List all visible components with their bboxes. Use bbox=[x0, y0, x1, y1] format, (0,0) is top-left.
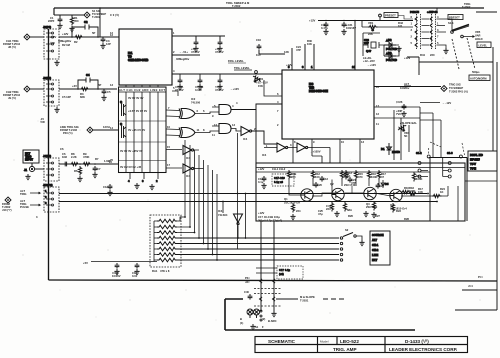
capacitor C15 bypass bbox=[112, 263, 121, 278]
resistor R20 emitter Q1 bbox=[290, 203, 301, 220]
wire switch dashed linkage right bbox=[467, 38, 475, 69]
transistor Q2 bbox=[330, 182, 356, 201]
svg-text:68A: 68A bbox=[347, 208, 352, 212]
svg-text:CH-1: CH-1 bbox=[372, 243, 379, 247]
svg-text:15K: 15K bbox=[258, 84, 263, 88]
label right top supply bbox=[398, 21, 403, 28]
wire ALT TRIG bus bbox=[59, 193, 427, 195]
wire preset drop bbox=[362, 17, 380, 27]
wire amp right verticals bbox=[429, 158, 467, 222]
and gate IC2d bbox=[214, 123, 235, 134]
label detail view pins bbox=[240, 317, 277, 325]
matrix FET symbol row2 bbox=[120, 122, 126, 138]
wire IC1 to matrix interconnect stubs bbox=[126, 85, 158, 87]
svg-text:J1: J1 bbox=[24, 168, 27, 172]
svg-text:+0.5V 0V 0V 0V: +0.5V 0V 0V 0V bbox=[128, 109, 147, 113]
svg-text:02Meg/Div: 02Meg/Div bbox=[176, 57, 190, 61]
crystal X1 sub circuit bbox=[363, 33, 384, 56]
svg-text:+12V: +12V bbox=[258, 167, 265, 171]
label ALT TRIG PULSE bbox=[20, 199, 40, 209]
svg-text:→+12V: →+12V bbox=[230, 87, 239, 91]
svg-text:(2): (2) bbox=[262, 317, 265, 321]
op-amp U2 IC3 box bbox=[282, 70, 374, 139]
wire and2 to inverter bbox=[231, 129, 241, 132]
svg-text:12K: 12K bbox=[284, 50, 289, 54]
transistor Q3 bbox=[364, 187, 378, 209]
svg-text:0.47µ: 0.47µ bbox=[321, 26, 328, 30]
attenuator J3(P2) CH2 dashed box bbox=[43, 76, 59, 106]
value labels cluster right top bbox=[404, 53, 435, 60]
svg-text:+12V: +12V bbox=[404, 56, 411, 60]
svg-text:P××: P×× bbox=[478, 275, 483, 279]
amp section outer box bbox=[256, 163, 465, 221]
wire ladder top rows to bundle bbox=[177, 217, 195, 233]
svg-text:C 0 (½): C 0 (½) bbox=[110, 13, 119, 17]
wire ALT TRIG PULSE bus bbox=[59, 201, 437, 203]
svg-text:IC1: IC1 bbox=[128, 51, 133, 55]
svg-text:10: 10 bbox=[341, 140, 344, 144]
resistor RA1-3 bbox=[157, 231, 177, 235]
ground J1 bbox=[25, 174, 30, 180]
connector J10(P2) ALT dashed box bbox=[43, 183, 59, 212]
resistor R14 collector Q3 bbox=[340, 170, 349, 180]
junction dots CH1 net bbox=[71, 7, 101, 165]
resistor R24 output bbox=[432, 194, 442, 197]
svg-text:(1): (1) bbox=[240, 321, 243, 325]
svg-text:T2B: T2B bbox=[309, 86, 314, 90]
resistor RA1-2 bbox=[157, 225, 177, 229]
label +105V bbox=[310, 150, 321, 154]
resistor RA1-7 bbox=[157, 253, 177, 257]
resistor RA1-8 bbox=[157, 258, 177, 262]
resistor R8 bbox=[70, 152, 80, 166]
svg-text:Q: Q bbox=[120, 100, 122, 104]
resistor R21 emitter Q2 bbox=[326, 202, 334, 212]
wire IC4f connections bbox=[222, 202, 224, 214]
label bottom wafer S1 bbox=[255, 325, 264, 329]
svg-text:PULSE: PULSE bbox=[20, 205, 29, 209]
svg-text:⌀SLOPE BAL: ⌀SLOPE BAL bbox=[400, 121, 417, 125]
svg-text:47/25V: 47/25V bbox=[215, 50, 224, 54]
IC1 pin 4 TRIG LEVEL wire bbox=[172, 69, 282, 74]
label +5V bbox=[83, 261, 88, 265]
capacitor C26 bbox=[396, 100, 407, 117]
capacitor C11 shunt row bbox=[215, 78, 239, 92]
svg-text:5K: 5K bbox=[404, 134, 407, 138]
svg-text:TV-V: TV-V bbox=[470, 162, 476, 166]
label P4x/J3x bbox=[245, 276, 250, 284]
svg-text:10K: 10K bbox=[418, 190, 423, 194]
dashed group bottom caps bbox=[277, 266, 303, 279]
and gate IC2c bbox=[214, 104, 234, 115]
capacitor C8 decoupling bbox=[191, 40, 200, 54]
IC1 pin 1 wire to caps bbox=[172, 31, 225, 40]
resistor R9 bbox=[82, 152, 92, 166]
wire IC3 bottom pins down bbox=[293, 139, 360, 163]
svg-text:△D3: △D3 bbox=[385, 51, 392, 55]
svg-text:PRESET: PRESET bbox=[385, 14, 396, 18]
svg-text:SCHEMATIC: SCHEMATIC bbox=[268, 339, 296, 344]
svg-text:C13: C13 bbox=[323, 177, 328, 181]
label +12V amp left bbox=[258, 167, 286, 171]
matrix pin 14 bbox=[110, 126, 119, 130]
svg-text:13: 13 bbox=[110, 83, 113, 87]
value labels cluster bottom right bbox=[468, 275, 483, 288]
svg-text:TRIG. AMP: TRIG. AMP bbox=[333, 347, 357, 352]
transistor Q1 bbox=[284, 189, 313, 205]
svg-text:R2: R2 bbox=[74, 40, 78, 44]
svg-text:100K: 100K bbox=[371, 175, 377, 179]
attenuator J4(P2) EXT dashed box bbox=[43, 154, 59, 181]
connector J1 jack bbox=[24, 163, 35, 172]
IC3 left pin numbers bbox=[277, 109, 279, 127]
resistor ladder RA1 dashed box bbox=[150, 215, 181, 267]
wire IC3 signals down to S1-2 wafer bbox=[420, 113, 441, 158]
svg-text:TO SWEEP: TO SWEEP bbox=[449, 86, 463, 90]
resistor R22 emitter Q3 bbox=[343, 202, 352, 212]
ground slope vertical2 bbox=[271, 311, 276, 317]
inverter IC4a after and2 bbox=[241, 127, 252, 142]
svg-text:→ -51+: → -51+ bbox=[179, 50, 188, 54]
svg-text:IC2: IC2 bbox=[191, 97, 196, 101]
IC3 bottom pin numbers bbox=[294, 140, 364, 144]
capacitor C20 amp bbox=[314, 182, 323, 188]
capacitor C5 CH2 shunt bbox=[101, 89, 111, 101]
label ALT TRIG bbox=[20, 189, 40, 196]
svg-text:‡C26: ‡C26 bbox=[396, 100, 403, 104]
wire bus line4 bbox=[177, 253, 343, 255]
vertical bundle right of IC3 bbox=[394, 110, 420, 160]
svg-text:IC3: IC3 bbox=[309, 82, 314, 86]
capacitor C16 bbox=[256, 38, 289, 57]
svg-text:7VC1: 7VC1 bbox=[396, 112, 403, 116]
wire: bottom boundary bbox=[49, 280, 498, 281]
svg-text:S1: S1 bbox=[255, 325, 259, 329]
svg-text:VAR: VAR bbox=[475, 34, 481, 38]
wire preset to column bbox=[398, 16, 413, 20]
resistor R15 collector Q4 bbox=[367, 170, 377, 180]
capacitor C3 CH1 shunt bbox=[100, 37, 111, 49]
wire CH1 input bbox=[30, 36, 44, 38]
svg-text:0V 0V 0V +45V 0V: 0V 0V 0V +45V 0V bbox=[120, 149, 143, 153]
svg-text:ALT CH1 CH2 ADD LINE EXT: ALT CH1 CH2 ADD LINE EXT bbox=[119, 88, 165, 92]
IC3 right pin numbers bbox=[376, 85, 379, 126]
wire right mid rails bbox=[407, 47, 497, 281]
resistor RA1-4 bbox=[157, 236, 177, 240]
svg-text:C1? 0.1µ: C1? 0.1µ bbox=[279, 268, 291, 272]
capacitor C9 decoupling bbox=[215, 40, 224, 54]
inverter IC4b lower1 bbox=[183, 146, 194, 161]
value labels cluster matrix row0 bbox=[128, 96, 144, 100]
wire ladder common left bbox=[91, 221, 157, 262]
attenuator J2(P2) CH1 dashed box bbox=[43, 25, 59, 59]
capacitor C1 22PF bbox=[48, 16, 62, 23]
label 500us bbox=[472, 70, 480, 74]
svg-text:DISPL MD: DISPL MD bbox=[470, 153, 483, 157]
diode D2 polycd bbox=[384, 38, 397, 51]
svg-text:P2B/J5: P2B/J5 bbox=[410, 10, 419, 14]
ground CH2 attenuator bbox=[54, 107, 59, 113]
capacitor C10A shunt row bbox=[175, 78, 184, 92]
svg-text:AUTO/NORM: AUTO/NORM bbox=[470, 77, 487, 81]
svg-text:EXT: EXT bbox=[372, 258, 378, 262]
label IC2 TL500 bbox=[191, 97, 201, 105]
node LINE TRIG SIG bbox=[60, 125, 93, 135]
wire vertical into amp left bbox=[255, 110, 257, 164]
label VR5 VAR HOLD bbox=[475, 30, 483, 41]
matrix cell voltages row2 bbox=[128, 128, 145, 132]
svg-text:IC4: IC4 bbox=[243, 137, 248, 141]
svg-text:B-SRC: B-SRC bbox=[268, 319, 277, 323]
svg-text:10/16V: 10/16V bbox=[112, 274, 121, 278]
diode D3 polycd bbox=[384, 51, 397, 62]
svg-text:→ -12V: → -12V bbox=[442, 101, 451, 105]
label TRIG T-2302 top right bbox=[462, 2, 497, 12]
vertical bus bundle center bbox=[185, 133, 246, 260]
svg-text:△D2: △D2 bbox=[385, 38, 392, 42]
wire EXT to attenuator bbox=[35, 168, 44, 170]
wire: left shield vertical bbox=[48, 29, 50, 280]
svg-text:C17-C19: C17-C19 bbox=[274, 176, 285, 180]
svg-text:13: 13 bbox=[361, 140, 364, 144]
svg-text:15: 15 bbox=[167, 145, 170, 149]
svg-text:0.022: 0.022 bbox=[195, 88, 202, 92]
svg-text:C1? 40-C1B 101µ: C1? 40-C1B 101µ bbox=[258, 215, 280, 219]
svg-text:+12V: +12V bbox=[309, 19, 316, 23]
connector EXT TRIG INPUT bbox=[23, 150, 39, 163]
svg-text:12: 12 bbox=[376, 112, 379, 116]
transistor detail view bbox=[247, 309, 260, 318]
svg-text:C7: C7 bbox=[97, 167, 101, 171]
svg-text:02Meg/Div: 02Meg/Div bbox=[58, 39, 72, 43]
svg-text:T-2302: T-2302 bbox=[462, 5, 471, 9]
svg-text:22PF: 22PF bbox=[48, 19, 55, 23]
svg-text:14: 14 bbox=[352, 65, 355, 69]
svg-text:INPUT: INPUT bbox=[25, 158, 33, 162]
svg-text:D-1433 (¹/²): D-1433 (¹/²) bbox=[405, 339, 429, 344]
svg-text:B: B bbox=[240, 317, 242, 321]
value labels cluster gates pins bbox=[203, 101, 256, 137]
wire bus line1 to S2 bbox=[177, 237, 339, 239]
wire TRIG SIG to sweep bbox=[374, 82, 441, 90]
svg-text:+12V: +12V bbox=[50, 35, 57, 39]
inverter IC4f bottom bbox=[218, 209, 243, 238]
ground below matrix bbox=[134, 183, 139, 189]
svg-text:470: 470 bbox=[358, 175, 363, 179]
svg-text:J10(P2): J10(P2) bbox=[43, 183, 53, 187]
ground diodes bbox=[396, 46, 401, 52]
svg-text:POLYCD: POLYCD bbox=[386, 58, 397, 62]
svg-text:→+12V: →+12V bbox=[367, 63, 376, 67]
switch S2 source bbox=[340, 228, 364, 246]
svg-text:LINE: LINE bbox=[372, 253, 378, 257]
svg-text:0V CV 0V 0V +45: 0V CV 0V 0V +45 bbox=[120, 165, 142, 169]
svg-text:22P: 22P bbox=[364, 41, 369, 45]
matrix cell voltages row3 bbox=[120, 149, 143, 153]
svg-text:PRESET: PRESET bbox=[449, 16, 460, 20]
IC1 pin 12 bbox=[110, 33, 119, 37]
svg-text:CH-2: CH-2 bbox=[372, 248, 379, 252]
inverter IC4e under IC3 bbox=[290, 143, 308, 152]
svg-text:T-2302: T-2302 bbox=[232, 4, 241, 8]
node TRIG SIG diamond bbox=[441, 83, 468, 94]
svg-text:Q1: Q1 bbox=[284, 197, 288, 201]
potentiometer SLOPE BAL bbox=[397, 121, 417, 138]
svg-text:C40: C40 bbox=[244, 290, 249, 294]
svg-text:HF-REJ: HF-REJ bbox=[470, 158, 480, 162]
wire lower feed lines bbox=[256, 268, 277, 273]
capacitor C31 bbox=[341, 22, 356, 35]
resistor R3 CH2 series bbox=[72, 84, 90, 99]
svg-text:(x3): (x3) bbox=[279, 272, 284, 276]
wire EXT chain to matrix pin 20 bbox=[59, 163, 117, 165]
op-amp U1 IC1 box bbox=[119, 29, 172, 85]
resistor R14b collector bbox=[354, 170, 363, 180]
resistor RA1-6 bbox=[157, 247, 177, 251]
svg-text:M & SLOPE: M & SLOPE bbox=[300, 295, 315, 299]
IC3 top pin wires bbox=[288, 21, 355, 71]
svg-text:1K: 1K bbox=[347, 174, 350, 178]
wire amp +12V rails bbox=[256, 168, 465, 173]
matrix cell voltages row1 bbox=[128, 109, 147, 113]
node S1 TRIG TO SWEEP connector bbox=[84, 9, 119, 19]
wire wafer linkage dashed bbox=[429, 142, 465, 155]
resistor R17 collector Q4 bbox=[377, 170, 386, 180]
wire inverter outputs down bbox=[194, 150, 204, 169]
svg-text:R44: R44 bbox=[420, 53, 425, 57]
svg-text:S1-3: S1-3 bbox=[447, 151, 453, 155]
IC1 pin 5 stub bbox=[172, 86, 178, 96]
svg-text:½W: ½W bbox=[50, 41, 55, 45]
svg-text:D5: D5 bbox=[385, 182, 389, 186]
svg-text:LBO-522: LBO-522 bbox=[340, 339, 359, 344]
resistor R18 on ALT line bbox=[408, 186, 418, 195]
svg-text:J10 (²/²): J10 (²/²) bbox=[2, 208, 12, 212]
svg-text:+12V: +12V bbox=[286, 63, 293, 67]
svg-text:47/25V: 47/25V bbox=[215, 88, 224, 92]
svg-text:47: 47 bbox=[381, 175, 384, 179]
svg-text:5P: 5P bbox=[92, 31, 95, 35]
svg-text:R23: R23 bbox=[396, 209, 401, 213]
svg-text:C5: C5 bbox=[107, 90, 111, 94]
wire bus line5 bbox=[177, 259, 343, 261]
svg-text:2.2K: 2.2K bbox=[71, 155, 77, 159]
inverter IC4c lower2 bbox=[183, 164, 194, 178]
wire Q collectors bbox=[289, 180, 390, 196]
label cluster CH2 net bbox=[62, 83, 113, 99]
label AUTO/NORM boxed bbox=[469, 75, 490, 81]
wire: top bus to sweep board bbox=[54, 8, 484, 15]
svg-text:R26: R26 bbox=[348, 214, 353, 218]
ground under R1 bbox=[69, 26, 74, 32]
svg-text:12P: 12P bbox=[106, 42, 111, 46]
svg-text:SOURCE: SOURCE bbox=[372, 233, 384, 237]
connector CH2 input diamond bbox=[3, 86, 30, 100]
resistor R13 amp mid bbox=[344, 170, 352, 180]
potentiometer VR trig level bbox=[250, 75, 268, 88]
svg-text:101: 101 bbox=[398, 24, 403, 28]
svg-text:+J5/P4B: +J5/P4B bbox=[427, 10, 438, 14]
switch S1-1 lever bbox=[448, 21, 474, 38]
svg-text:224: 224 bbox=[296, 209, 301, 213]
svg-text:T-2031: T-2031 bbox=[300, 299, 309, 303]
wire: top-left stub to C1/R1 bbox=[54, 15, 84, 17]
svg-text:J9 (½): J9 (½) bbox=[8, 96, 16, 100]
connector pins on boundary wire bbox=[260, 279, 276, 283]
svg-text:1K: 1K bbox=[440, 190, 443, 194]
label cluster top left supply bbox=[50, 31, 113, 47]
svg-text:J×4: J×4 bbox=[468, 284, 473, 288]
wire bus line2 bbox=[177, 242, 343, 244]
node ALT TRIG from sweep bbox=[2, 197, 12, 212]
wire to M&SLOPE bbox=[276, 295, 344, 303]
svg-text:220: 220 bbox=[430, 53, 435, 57]
svg-text:TRIG SIG: TRIG SIG bbox=[449, 83, 461, 87]
svg-text:100: 100 bbox=[315, 175, 320, 179]
wire amp outputs right bbox=[401, 172, 497, 221]
svg-text:HOLD: HOLD bbox=[475, 37, 483, 41]
label TRIG LEVEL bbox=[234, 66, 257, 73]
title block D-1433 bbox=[405, 339, 429, 344]
svg-text:12VH: 12VH bbox=[103, 125, 110, 129]
capacitor C40 slope bbox=[244, 290, 252, 300]
svg-text:Model: Model bbox=[320, 340, 329, 344]
slope vertical contact circles bbox=[260, 310, 262, 321]
svg-text:ALT: ALT bbox=[372, 238, 377, 242]
wire amp internal links bbox=[312, 186, 391, 196]
svg-text:+12V: +12V bbox=[62, 32, 69, 36]
diode D1 bbox=[381, 143, 400, 155]
svg-text:J2(P2): J2(P2) bbox=[43, 25, 51, 29]
svg-text:C4: C4 bbox=[86, 73, 90, 77]
capacitor C16b bypass bbox=[132, 263, 140, 278]
resistor R23 emitter Q4 bbox=[391, 203, 401, 213]
matrix column lines bbox=[119, 92, 167, 173]
matrix output pin numbers bbox=[167, 106, 170, 167]
ground CH1 attenuator bbox=[54, 60, 59, 66]
connector P2B/J5 column bbox=[410, 10, 421, 50]
ground amp q2 bbox=[334, 211, 339, 217]
svg-text:LEVEL: LEVEL bbox=[479, 44, 488, 48]
svg-text:0V 0V 0V 0V: 0V 0V 0V 0V bbox=[128, 96, 144, 100]
diode D5 amp bbox=[381, 180, 389, 188]
wire bus line3 bbox=[177, 248, 343, 250]
svg-text:+2V: +2V bbox=[72, 84, 77, 88]
capacitor C12 below matrix bbox=[103, 184, 113, 196]
svg-text:74LS04: 74LS04 bbox=[218, 213, 228, 217]
switch matrix S1 trigger source box bbox=[119, 87, 167, 173]
title block Model LBO-522 bbox=[320, 339, 359, 344]
xor gate IC2b bbox=[179, 128, 200, 138]
wire inverters chain bbox=[264, 148, 330, 164]
svg-text:C16: C16 bbox=[256, 38, 261, 42]
svg-text:C5 12P: C5 12P bbox=[62, 95, 71, 99]
label TRIG SWEEP top middle bbox=[226, 1, 250, 8]
label IC3 support bbox=[286, 39, 312, 67]
svg-text:0.1µ: 0.1µ bbox=[258, 180, 264, 184]
label cluster EXT net bbox=[60, 147, 113, 163]
svg-text:C20: C20 bbox=[317, 183, 322, 187]
svg-text:IC4: IC4 bbox=[262, 153, 267, 157]
svg-text:VR1: VR1 bbox=[368, 21, 374, 25]
resistor R18 right bbox=[412, 172, 422, 182]
resistor R11 collector Q1 bbox=[287, 170, 296, 180]
switch S1-1 wedge second line bbox=[452, 26, 469, 32]
wire ground loop bottom bbox=[225, 299, 415, 330]
node PRESET upper bbox=[379, 13, 398, 18]
svg-text:251µA 0.7µ-27µ(x2): 251µA 0.7µ-27µ(x2) bbox=[258, 219, 282, 223]
svg-text:10: 10 bbox=[167, 125, 170, 129]
